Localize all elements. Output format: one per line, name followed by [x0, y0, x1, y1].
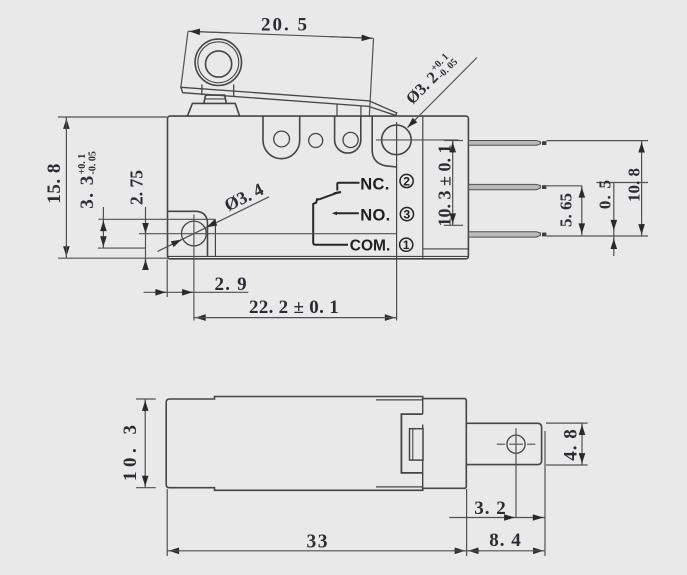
svg-text:-0. 05: -0. 05	[87, 151, 98, 174]
svg-text:4. 8: 4. 8	[560, 428, 581, 461]
svg-text:3. 2: 3. 2	[474, 498, 507, 519]
svg-text:2: 2	[403, 174, 410, 188]
svg-text:0. 5: 0. 5	[595, 179, 614, 209]
svg-text:22. 2 ± 0. 1: 22. 2 ± 0. 1	[249, 297, 339, 318]
svg-text:8. 4: 8. 4	[489, 530, 522, 551]
svg-text:5. 65: 5. 65	[557, 193, 576, 227]
svg-text:2. 75: 2. 75	[126, 170, 146, 205]
svg-text:10. 3: 10. 3	[120, 421, 141, 482]
svg-text:+0. 1: +0. 1	[77, 154, 88, 175]
svg-text:33: 33	[307, 532, 330, 553]
svg-text:COM.: COM.	[350, 238, 390, 255]
svg-text:10. 3 ± 0. 1: 10. 3 ± 0. 1	[434, 145, 454, 227]
svg-text:3: 3	[404, 207, 411, 221]
svg-text:20. 5: 20. 5	[261, 15, 309, 36]
svg-text:1: 1	[403, 238, 410, 252]
svg-text:NC.: NC.	[360, 176, 389, 194]
svg-text:3. 3: 3. 3	[77, 174, 98, 209]
svg-text:NO.: NO.	[360, 206, 390, 224]
svg-text:10. 8: 10. 8	[625, 168, 644, 202]
svg-text:15. 8: 15. 8	[44, 163, 65, 204]
svg-text:2. 9: 2. 9	[215, 274, 248, 295]
